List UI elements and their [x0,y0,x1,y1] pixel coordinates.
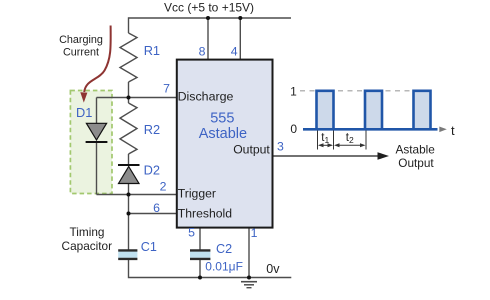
svg-text:Astable: Astable [396,143,436,157]
svg-text:5: 5 [188,226,195,240]
svg-text:6: 6 [153,201,160,215]
svg-text:0.01μF: 0.01μF [205,260,243,274]
svg-text:D1: D1 [76,105,92,120]
svg-text:t: t [451,123,455,138]
svg-text:Threshold: Threshold [178,206,232,220]
svg-text:Astable: Astable [199,126,247,142]
svg-text:Capacitor: Capacitor [62,239,113,253]
svg-text:Timing: Timing [70,225,105,239]
svg-text:1: 1 [251,226,258,240]
svg-text:D2: D2 [144,162,160,177]
svg-text:R1: R1 [144,43,160,58]
svg-text:R2: R2 [144,122,160,137]
svg-text:555: 555 [210,111,234,127]
svg-text:Charging: Charging [59,34,103,46]
svg-text:8: 8 [199,44,206,58]
svg-text:Discharge: Discharge [178,90,234,104]
svg-text:Trigger: Trigger [178,187,216,201]
svg-text:Current: Current [63,46,99,58]
svg-text:2: 2 [160,180,167,194]
svg-text:Output: Output [233,143,270,157]
svg-text:Output: Output [398,156,434,170]
svg-text:0v: 0v [266,262,280,276]
svg-text:C1: C1 [141,240,157,254]
svg-text:Vcc (+5 to +15V): Vcc (+5 to +15V) [164,0,254,14]
svg-text:7: 7 [163,82,170,96]
svg-text:3: 3 [277,140,284,154]
svg-text:4: 4 [231,44,238,58]
svg-text:0: 0 [290,122,297,136]
svg-text:1: 1 [290,84,297,98]
svg-text:C2: C2 [216,242,232,256]
